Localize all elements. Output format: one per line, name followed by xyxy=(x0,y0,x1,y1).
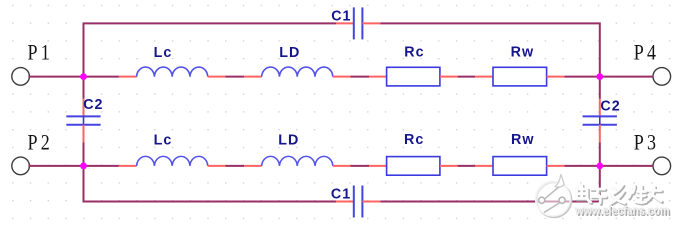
wire Rw to node D xyxy=(564,165,600,167)
wire left rail lower xyxy=(83,142,85,166)
capacitor C2 (left) xyxy=(66,116,100,124)
wire bottom bus right segment xyxy=(380,166,600,202)
label C1 bottom xyxy=(331,186,351,202)
svg-text:C2: C2 xyxy=(600,98,620,114)
capacitor C2 (right) xyxy=(583,116,617,124)
pin C1 top right xyxy=(362,22,380,24)
label C2 left xyxy=(83,97,103,113)
wire P2 to node B xyxy=(28,165,83,167)
pin Rc top right xyxy=(440,76,458,78)
port P4 xyxy=(634,41,671,85)
pin C1 top left xyxy=(336,22,354,24)
wire bottom bus left segment xyxy=(84,166,337,202)
svg-text:P2: P2 xyxy=(28,131,53,155)
pin C1 bottom left xyxy=(336,201,354,203)
pin C2 left lower xyxy=(83,125,85,143)
pin Rc bottom left xyxy=(369,165,387,167)
wire node D to P3 xyxy=(600,165,654,167)
label LD top xyxy=(279,45,300,61)
pin C1 bottom right xyxy=(362,201,380,203)
label C2 right xyxy=(600,98,620,114)
svg-text:Rc: Rc xyxy=(404,45,424,61)
pin Lc bottom left xyxy=(119,165,137,167)
wire top bus left segment xyxy=(84,23,337,76)
capacitor C1 (bottom) xyxy=(354,186,363,218)
watermark text 电子发烧友 (drawn strokes) xyxy=(577,185,663,204)
pin Rc bottom right xyxy=(440,165,458,167)
resistor Rc (bottom) xyxy=(387,157,440,176)
svg-text:C2: C2 xyxy=(83,97,103,113)
svg-text:Lc: Lc xyxy=(154,132,173,148)
svg-text:LD: LD xyxy=(279,45,300,61)
svg-text:Rw: Rw xyxy=(511,132,535,148)
resistor Rw (top) xyxy=(493,67,547,86)
node B junction xyxy=(80,163,87,170)
label Rc bottom xyxy=(404,132,424,148)
wire right rail upper xyxy=(599,77,601,99)
label C1 top xyxy=(331,8,351,24)
label Lc bottom xyxy=(154,132,173,148)
label Rc top xyxy=(404,45,424,61)
capacitor C1 (top) xyxy=(354,7,363,39)
pin Lc bottom right xyxy=(208,165,226,167)
port P1 xyxy=(12,41,53,85)
wire Rw to node C xyxy=(564,76,600,78)
svg-text:P3: P3 xyxy=(634,131,659,155)
wire node B to Lc bottom xyxy=(84,165,119,167)
pin C2 right upper xyxy=(599,99,601,117)
pin LD bottom right xyxy=(333,165,351,167)
pin C2 left upper xyxy=(83,99,85,117)
pin C2 right lower xyxy=(599,125,601,143)
pin Rw top right xyxy=(547,76,565,78)
wire left rail upper xyxy=(83,77,85,99)
svg-text:P4: P4 xyxy=(634,41,659,65)
pin Rc top left xyxy=(369,76,387,78)
pin Rw top left xyxy=(475,76,493,78)
svg-text:Rw: Rw xyxy=(511,45,535,61)
pin LD bottom left xyxy=(244,165,262,167)
svg-text:Rc: Rc xyxy=(404,132,424,148)
resistor Rw (bottom) xyxy=(493,157,547,176)
inductor LD (bottom) xyxy=(262,156,333,166)
svg-text:www.elecfans.com: www.elecfans.com xyxy=(575,203,670,217)
port P2 xyxy=(12,131,53,175)
inductor LD (top) xyxy=(262,67,333,77)
wire LD to Rc bottom xyxy=(351,165,370,167)
inductor Lc (bottom) xyxy=(137,156,208,166)
pin Lc top left xyxy=(119,76,137,78)
pin Rw bottom left xyxy=(475,165,493,167)
wire Lc to LD bottom xyxy=(225,165,244,167)
wire node C to P4 xyxy=(600,76,654,78)
svg-text:C1: C1 xyxy=(331,8,351,24)
node A junction xyxy=(80,73,87,80)
svg-text:Lc: Lc xyxy=(154,45,173,61)
wire top bus right segment xyxy=(380,23,600,76)
wire LD to Rc top xyxy=(351,76,370,78)
label LD bottom xyxy=(278,132,299,148)
inductor Lc (top) xyxy=(137,67,208,77)
resistor Rc (top) xyxy=(387,67,440,86)
label Rw bottom xyxy=(511,132,535,148)
wire Rc to Rw bottom xyxy=(458,165,476,167)
pin LD top left xyxy=(244,76,262,78)
watermark logo xyxy=(536,174,572,217)
wire node A to Lc top xyxy=(84,76,119,78)
svg-text:P1: P1 xyxy=(28,41,53,65)
wire Lc to LD top xyxy=(225,76,244,78)
label Lc top xyxy=(154,45,173,61)
svg-text:LD: LD xyxy=(278,132,299,148)
node D junction xyxy=(596,163,603,170)
watermark url text xyxy=(575,203,671,218)
label Rw top xyxy=(511,45,535,61)
pin LD top right xyxy=(333,76,351,78)
wire P1 to node A xyxy=(28,76,83,78)
pin Lc top right xyxy=(208,76,226,78)
wire right rail lower xyxy=(599,142,601,166)
node C junction xyxy=(596,73,603,80)
wire Rc to Rw top xyxy=(458,76,476,78)
pin Rw bottom right xyxy=(547,165,565,167)
port P3 xyxy=(634,131,671,175)
svg-text:C1: C1 xyxy=(331,186,351,202)
